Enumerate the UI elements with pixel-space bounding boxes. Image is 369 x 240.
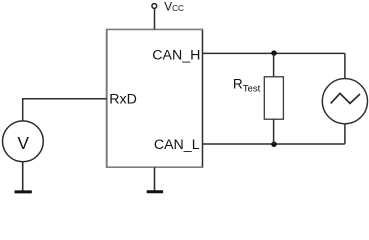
svg-text:CAN_L: CAN_L — [154, 137, 200, 153]
svg-text:CAN_H: CAN_H — [152, 47, 200, 63]
junction dot CAN_L / RTest — [271, 141, 277, 147]
svg-text:V: V — [17, 133, 29, 153]
resistor RTest — [264, 77, 283, 119]
svg-text:RxD: RxD — [109, 92, 137, 108]
wire RTest bottom — [273, 119, 275, 144]
transceiver box — [106, 29, 203, 168]
ground (transceiver) — [147, 190, 163, 193]
wire RxD — [23, 99, 107, 121]
wire transceiver to ground — [154, 167, 156, 190]
junction dot CAN_H / RTest — [271, 50, 277, 56]
wire source bottom — [344, 123, 346, 144]
wire RTest top — [273, 53, 275, 76]
svg-text:RTest: RTest — [233, 77, 261, 95]
svg-text:VCC: VCC — [164, 0, 184, 13]
wire CAN_H — [203, 52, 345, 54]
ground (voltmeter) — [15, 190, 32, 193]
voltmeter V — [3, 121, 44, 162]
Vcc terminal — [152, 4, 157, 9]
wire voltmeter to ground — [22, 162, 24, 191]
wire Vcc — [154, 9, 156, 30]
wire CAN_L — [203, 143, 345, 145]
signal source (triangle wave generator) — [322, 79, 367, 124]
wire source top — [344, 53, 346, 79]
